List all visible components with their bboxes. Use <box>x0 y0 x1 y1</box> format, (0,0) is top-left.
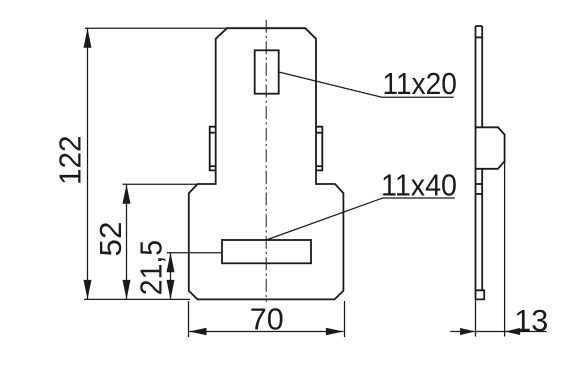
13 dim line <box>450 331 546 333</box>
21,5 extension <box>167 252 222 254</box>
70 dim line <box>189 331 343 333</box>
13 arrows (outside) <box>460 328 476 335</box>
70 extension lines <box>188 301 190 337</box>
leader 11x20 <box>279 72 454 97</box>
52 dim line <box>126 184 128 299</box>
slot 11x20 <box>255 50 279 93</box>
side view: bottom box <box>476 290 485 299</box>
52 arrows <box>123 184 131 204</box>
centerline <box>265 20 267 302</box>
21,5 arrows <box>167 253 175 273</box>
122 dim line <box>87 28 89 299</box>
svg-text:11x20: 11x20 <box>383 67 457 101</box>
svg-text:21,5: 21,5 <box>135 240 169 295</box>
svg-text:52: 52 <box>94 222 128 257</box>
right tab <box>316 127 322 171</box>
dimension thin lines <box>84 28 547 337</box>
svg-text:122: 122 <box>54 136 88 186</box>
side view: plate <box>476 26 483 299</box>
svg-text:11x40: 11x40 <box>381 169 457 203</box>
21,5 dim line <box>170 253 172 300</box>
70 arrows <box>189 328 207 335</box>
left tab <box>210 127 216 171</box>
side view: rail bump <box>476 127 505 169</box>
shoulder extension <box>123 183 198 185</box>
13 extension lines <box>475 299 477 336</box>
top extension <box>85 27 227 29</box>
dimension texts <box>54 67 549 338</box>
slot 11x40 <box>222 240 311 263</box>
front view: plate outline <box>189 28 344 299</box>
svg-text:70: 70 <box>250 302 284 336</box>
122 arrows <box>84 28 92 48</box>
side view: edge ticks <box>476 184 483 194</box>
leader 11x40 <box>266 198 455 240</box>
bottom extension <box>84 298 190 300</box>
arrowheads <box>84 28 521 335</box>
svg-text:13: 13 <box>514 304 548 338</box>
